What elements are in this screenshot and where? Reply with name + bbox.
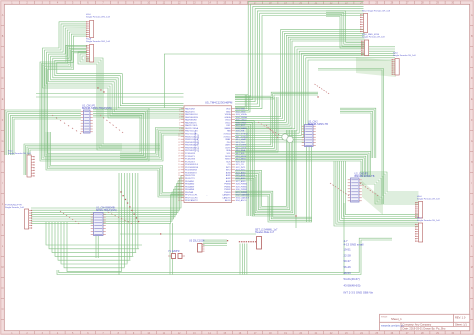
svg-text:N29_PWM1: N29_PWM1 — [236, 186, 248, 188]
eeprom U3 — [189, 240, 205, 253]
svg-text:N28_PWM0: N28_PWM0 — [236, 184, 248, 186]
svg-text:H: H — [471, 161, 473, 164]
svg-text:N07_RST: N07_RST — [236, 125, 246, 127]
wire bus down from P1 band — [46, 222, 142, 272]
svg-text:Single Female-CH_1x8: Single Female-CH_1x8 — [362, 37, 385, 39]
svg-text:PF0/NMI: PF0/NMI — [185, 192, 194, 194]
connector U2_CH2-P2 — [348, 173, 375, 203]
wire U5 pin2 long horizontal — [36, 96, 184, 98]
svg-text:31: 31 — [178, 192, 180, 194]
svg-text:PE2/AIN1: PE2/AIN1 — [185, 180, 195, 183]
svg-text:PWM3: PWM3 — [224, 192, 231, 194]
svg-text:N16_SDA: N16_SDA — [236, 149, 246, 152]
svg-text:6: 6 — [179, 122, 180, 124]
svg-text:22: 22 — [178, 167, 180, 169]
bus entries right of U2_CH2-P2 — [360, 183, 378, 196]
svg-text:N11_XOSC1: N11_XOSC1 — [236, 136, 249, 138]
connector P1 left — [5, 205, 32, 230]
svg-text:N27_AIN3: N27_AIN3 — [236, 180, 246, 183]
connector U1_CH1-P1 — [81, 105, 112, 134]
wire bus into U2_CH2 — [235, 92, 318, 99]
svg-text:Sheet_1: Sheet_1 — [391, 317, 402, 321]
svg-text:4: 4 — [179, 117, 180, 119]
junction dots misc — [160, 96, 319, 241]
title block — [380, 314, 470, 330]
svg-text:N18_MOSI: N18_MOSI — [236, 156, 247, 158]
svg-text:PC4/U4RX: PC4/U4RX — [185, 153, 196, 155]
svg-text:Header-Male 1x7: Header-Male 1x7 — [255, 231, 275, 234]
svg-text:VDD: VDD — [226, 109, 231, 111]
wire bus from H1 to U5 left pins — [43, 22, 184, 118]
svg-text:N34_ADC0: N34_ADC0 — [236, 199, 247, 202]
svg-text:PE4/AIN9: PE4/AIN9 — [185, 185, 195, 188]
bus ramp shade to H4 — [356, 57, 396, 77]
svg-text:PC7/U3TX: PC7/U3TX — [185, 161, 196, 163]
svg-text:C: C — [2, 56, 4, 59]
wire bus U5 right to H3 — [235, 30, 365, 128]
svg-text:N22_INT1: N22_INT1 — [236, 167, 246, 169]
svg-text:30: 30 — [178, 189, 180, 191]
svg-text:PA7/I2C1SDA: PA7/I2C1SDA — [185, 127, 199, 130]
svg-text:N02_GND: N02_GND — [236, 111, 246, 113]
svg-text:U0RX: U0RX — [225, 145, 231, 147]
svg-text:HIB: HIB — [227, 131, 231, 133]
svg-text:N15_U0TX: N15_U0TX — [236, 147, 247, 149]
svg-text:C: C — [471, 56, 473, 59]
svg-text:9: 9 — [179, 131, 180, 133]
svg-text:XOSC0 XOSC1 GNDX: XOSC0 XOSC1 GNDX — [195, 130, 197, 152]
wire bottom single net — [120, 233, 256, 235]
svg-text:H: H — [2, 161, 4, 164]
svg-text:PA1/U0TX: PA1/U0TX — [185, 110, 195, 113]
svg-text:32: 32 — [178, 195, 180, 197]
svg-text:N12_VBAT: N12_VBAT — [236, 138, 247, 141]
svg-text:Sheet: 1/1: Sheet: 1/1 — [455, 323, 467, 327]
bus entries right of U1_CH1-P1 — [100, 115, 123, 133]
svg-text:INT 2-3 5 GND GB6 Vin: INT 2-3 5 GND GB6 Vin — [344, 291, 374, 295]
svg-text:PD1/SSI3FSS: PD1/SSI3FSS — [185, 167, 199, 169]
svg-text:U3 25LC1024: U3 25LC1024 — [189, 240, 205, 243]
svg-text:4-13 GND small: 4-13 GND small — [344, 243, 364, 247]
svg-text:WAKE: WAKE — [224, 127, 231, 130]
connector H1 — [86, 14, 111, 37]
part Q1 circles — [282, 134, 293, 143]
svg-text:N32_CAN0RX: N32_CAN0RX — [236, 194, 250, 197]
svg-text:GND: GND — [226, 111, 231, 113]
svg-text:18: 18 — [178, 156, 180, 158]
svg-text:Single Female-CH1_1x8: Single Female-CH1_1x8 — [86, 17, 111, 19]
wire bus H4 band continue down — [318, 69, 384, 205]
svg-text:M: M — [2, 266, 4, 269]
svg-text:Single Female-CH_1x8: Single Female-CH_1x8 — [417, 198, 440, 200]
connector H3 — [361, 34, 385, 55]
bus entries top right feed — [315, 84, 330, 94]
svg-text:SRSS-TB(LF)(SN): SRSS-TB(LF)(SN) — [96, 209, 117, 212]
svg-text:PA3/SSI0FSS: PA3/SSI0FSS — [185, 116, 199, 119]
svg-text:G: G — [471, 140, 473, 143]
wire U5 pin1 long horizontal — [36, 93, 184, 95]
svg-text:OSC0: OSC0 — [225, 120, 232, 122]
svg-text:21: 21 — [178, 164, 180, 166]
svg-text:VDDA: VDDA — [225, 113, 231, 116]
wire bus mid loop — [24, 144, 160, 175]
svg-text:16: 16 — [178, 150, 180, 152]
wire bus right side down — [340, 108, 376, 158]
svg-text:PA5/SSI0TX: PA5/SSI0TX — [185, 121, 197, 124]
svg-text:1: 1 — [179, 108, 180, 110]
svg-text:PD0/SSI3CLK: PD0/SSI3CLK — [185, 164, 199, 166]
svg-text:SDA: SDA — [226, 149, 231, 152]
svg-text:GNDA: GNDA — [224, 116, 231, 119]
svg-text:12: 12 — [178, 139, 180, 141]
wire bus IC lower right loop — [235, 191, 312, 222]
svg-text:N10_XOSC0: N10_XOSC0 — [236, 134, 249, 136]
svg-text:22-28: 22-28 — [344, 254, 352, 258]
wire bus left edge to U1_CH1-P1 — [5, 110, 81, 155]
svg-text:PC5/U4TX: PC5/U4TX — [185, 156, 196, 158]
svg-text:54-61(49-67): 54-61(49-67) — [344, 277, 360, 281]
svg-text:BM04B-SRSS-TB: BM04B-SRSS-TB — [308, 123, 328, 126]
svg-text:N17_SCL: N17_SCL — [236, 153, 246, 155]
wire bus U5 right to U2_CH2-P2 — [235, 151, 371, 177]
svg-text:H2-0 Single Female-CH_1x8: H2-0 Single Female-CH_1x8 — [362, 11, 391, 13]
wire bus loops down to band junctions — [119, 173, 138, 275]
svg-text:N04_GNDA: N04_GNDA — [236, 116, 248, 119]
bus entries near U1_CH4 left — [60, 211, 79, 224]
svg-text:33: 33 — [178, 197, 180, 199]
svg-text:O: O — [2, 308, 4, 311]
svg-text:14: 14 — [178, 145, 180, 147]
wire bus IC right near verticals down — [235, 121, 254, 216]
svg-text:34: 34 — [178, 200, 180, 202]
svg-text:CAN0RX: CAN0RX — [222, 194, 231, 197]
svg-text:M: M — [471, 266, 473, 269]
svg-text:Single Female-CH_1x8: Single Female-CH_1x8 — [393, 55, 416, 57]
svg-text:O: O — [471, 308, 473, 311]
bus entries mid crossing — [266, 125, 278, 138]
svg-text:N19_MISO: N19_MISO — [236, 159, 247, 161]
svg-text:N23_INT2: N23_INT2 — [236, 170, 246, 172]
wire bus U5 right to H4 — [235, 47, 395, 142]
svg-text:N03_VDDA: N03_VDDA — [236, 113, 247, 116]
svg-text:N: N — [471, 287, 473, 290]
svg-text:11: 11 — [178, 136, 180, 138]
connector H4 — [392, 53, 417, 76]
svg-text:Y1 12MHz: Y1 12MHz — [168, 250, 180, 253]
wire bus from H1A to nested loop — [40, 45, 184, 161]
svg-text:PD2/SSI3RX: PD2/SSI3RX — [185, 170, 198, 172]
svg-text:PE0/U7RX: PE0/U7RX — [185, 175, 196, 177]
IC U5 — [178, 101, 250, 203]
svg-text:easyeda.com/join_us: easyeda.com/join_us — [381, 324, 404, 327]
svg-text:N31_PWM3: N31_PWM3 — [236, 192, 248, 194]
svg-text:PF2/T1CCP0: PF2/T1CCP0 — [185, 198, 198, 200]
wire bus U1_CH1-P1 to loops — [93, 108, 149, 161]
wire bus U2_CH2 bottom down — [307, 147, 312, 223]
wire bus U2_CH2-P2 to H5 header — [360, 172, 419, 204]
net notes text — [344, 239, 374, 295]
svg-text:19-51: 19-51 — [344, 248, 352, 252]
crystal Y1 — [168, 250, 185, 259]
svg-text:XOSC1: XOSC1 — [223, 136, 231, 138]
svg-text:PE1/U7TX: PE1/U7TX — [185, 178, 195, 180]
svg-text:13: 13 — [178, 142, 180, 144]
svg-text:N14_U0RX: N14_U0RX — [236, 145, 247, 147]
svg-text:N: N — [2, 287, 4, 290]
svg-text:PC6/U3RX: PC6/U3RX — [185, 159, 196, 161]
wire bus IC right near verticals up — [235, 95, 250, 112]
svg-text:N20_SCK: N20_SCK — [236, 161, 246, 163]
svg-text:15: 15 — [178, 147, 180, 149]
svg-text:17: 17 — [178, 153, 180, 155]
svg-text:PA4/SSI0RX: PA4/SSI0RX — [185, 119, 197, 122]
svg-text:N21_CS: N21_CS — [236, 164, 244, 166]
wire bus vertical pair to bottom run — [170, 223, 173, 275]
svg-text:U0TX: U0TX — [225, 147, 231, 149]
wire long top single — [164, 54, 364, 108]
svg-text:VDDC VDDC GND: VDDC VDDC GND — [198, 134, 200, 152]
bus entries left of U1_CH1-P1 — [52, 115, 81, 134]
svg-text:20: 20 — [178, 161, 180, 163]
svg-text:N30_PWM2: N30_PWM2 — [236, 189, 248, 191]
svg-text:SCK: SCK — [226, 161, 231, 163]
connector P2 left edge — [8, 151, 35, 178]
svg-text:N05_OSC0: N05_OSC0 — [236, 120, 247, 122]
wire bus long bottom run — [57, 238, 392, 274]
svg-text:N01_VDD: N01_VDD — [236, 109, 246, 111]
wire bus U5 lower-left fan to P1 header — [31, 175, 184, 223]
svg-text:8: 8 — [179, 128, 180, 130]
connector U1_CH4 — [91, 207, 117, 236]
svg-text:Single Female_1x8: Single Female_1x8 — [5, 207, 25, 209]
svg-text:XOSC0: XOSC0 — [223, 134, 231, 136]
connector H1A — [86, 38, 111, 63]
wire bus to H6 header — [334, 161, 419, 226]
svg-text:3: 3 — [179, 114, 180, 116]
svg-text:Company: Any Company: Company: Any Company — [403, 323, 432, 327]
svg-text:TITLE:: TITLE: — [381, 316, 388, 318]
svg-text:Single Female-CH_1x8: Single Female-CH_1x8 — [417, 220, 440, 222]
svg-text:N13_PF4: N13_PF4 — [236, 142, 246, 144]
connector U2_CH2 — [302, 121, 328, 147]
svg-text:PWM0: PWM0 — [224, 184, 231, 186]
svg-text:24: 24 — [178, 172, 180, 174]
wire stub right of corner — [295, 216, 297, 228]
svg-text:PF1/T0CCP1: PF1/T0CCP1 — [185, 195, 198, 197]
bus ramp shade U2_CH2-P2 to H5 — [362, 181, 383, 215]
bus entries left of U2_CH2-P2 — [330, 183, 349, 196]
bus entries near U2_CH2 — [258, 122, 279, 135]
svg-text:BM04B-SRSS-TB(LF)(SN): BM04B-SRSS-TB(LF)(SN) — [82, 107, 112, 110]
svg-text:PE3/AIN0: PE3/AIN0 — [185, 183, 195, 186]
svg-text:23: 23 — [178, 170, 180, 172]
svg-text:Date: 2019-03-01 Drawn By: Date: 2019-03-01 Drawn By: Po_Shu — [403, 327, 446, 331]
connector SET — [239, 229, 278, 250]
svg-text:25: 25 — [178, 175, 180, 177]
svg-text:7: 7 — [179, 125, 180, 127]
wire bus from H1A down right — [78, 52, 122, 150]
connector H6 — [415, 217, 440, 242]
svg-text:G: G — [2, 140, 4, 143]
svg-text:N24_AIN0: N24_AIN0 — [236, 171, 246, 174]
wire bus U5 right to H2 — [235, 2, 364, 109]
svg-text:PWM2: PWM2 — [224, 189, 231, 191]
svg-text:CAN0TX: CAN0TX — [222, 197, 231, 200]
wire bus U3 eeprom to SET — [203, 240, 227, 245]
svg-text:N09_HIB: N09_HIB — [236, 131, 245, 133]
wire bus SET header down to bottom run — [240, 244, 247, 275]
wire bus IC right mid verticals — [235, 97, 278, 152]
svg-text:43-58(48-6/5): 43-58(48-6/5) — [344, 284, 361, 288]
svg-text:PWM1: PWM1 — [224, 186, 231, 188]
svg-text:27: 27 — [178, 181, 180, 183]
svg-text:U5_TM4C123GH6PM: U5_TM4C123GH6PM — [205, 101, 233, 105]
connector H5 — [415, 196, 440, 218]
svg-text:MISO: MISO — [225, 159, 231, 161]
junction dots on P1 band — [120, 191, 139, 222]
svg-text:ADC0: ADC0 — [225, 199, 231, 202]
svg-text:MOSI: MOSI — [225, 156, 231, 158]
svg-text:PF3/CAN0TX: PF3/CAN0TX — [185, 199, 198, 202]
wire bus left block lower loop — [46, 132, 184, 197]
junction dots top-left band — [97, 87, 104, 92]
wire vertical net at 344 — [343, 203, 345, 275]
svg-text:N26_AIN2: N26_AIN2 — [236, 177, 246, 180]
svg-text:Single Female-CH_1x8: Single Female-CH_1x8 — [8, 153, 31, 155]
wire bus center-right nested loop — [235, 130, 296, 216]
svg-text:BM04B-SRSS-TB: BM04B-SRSS-TB — [355, 175, 375, 178]
svg-text:56-46: 56-46 — [344, 265, 352, 269]
svg-text:Single Female-CH1_1x8: Single Female-CH1_1x8 — [86, 41, 111, 43]
svg-text:50-37: 50-37 — [344, 259, 352, 263]
svg-text:2: 2 — [179, 111, 180, 113]
svg-text:N08_WAKE: N08_WAKE — [236, 127, 248, 130]
svg-text:29: 29 — [178, 186, 180, 188]
svg-text:PE5/AIN8: PE5/AIN8 — [185, 188, 195, 191]
svg-text:D: D — [2, 77, 4, 80]
bus entries near U1_CH4 right — [108, 212, 132, 224]
wire bus U1_CH4 bottom stubs — [96, 236, 98, 258]
svg-text:19: 19 — [178, 158, 180, 160]
svg-text:PA0/U0RX: PA0/U0RX — [185, 108, 196, 111]
svg-text:26: 26 — [178, 178, 180, 180]
svg-text:RST: RST — [226, 125, 231, 127]
svg-text:48-53: 48-53 — [344, 271, 352, 275]
svg-text:PD3/SSI3TX: PD3/SSI3TX — [185, 172, 197, 174]
svg-text:PA2/SSI0CLK: PA2/SSI0CLK — [185, 113, 199, 116]
svg-text:5: 5 — [179, 120, 180, 122]
svg-text:D: D — [471, 77, 473, 80]
svg-text:REV: 1.0: REV: 1.0 — [455, 316, 466, 320]
svg-text:PA6/I2C1SCL: PA6/I2C1SCL — [185, 124, 199, 127]
svg-text:N25_AIN1: N25_AIN1 — [236, 174, 246, 177]
svg-text:N33_CAN0TX: N33_CAN0TX — [236, 197, 250, 200]
svg-text:10: 10 — [178, 133, 180, 135]
svg-text:OSC1: OSC1 — [225, 122, 232, 124]
wire bus staircase H2 to H3 — [326, 11, 365, 48]
svg-text:N06_OSC1: N06_OSC1 — [236, 122, 247, 124]
svg-text:VBAT: VBAT — [225, 138, 231, 141]
connector H2 — [360, 11, 391, 33]
svg-text:28: 28 — [178, 184, 180, 186]
